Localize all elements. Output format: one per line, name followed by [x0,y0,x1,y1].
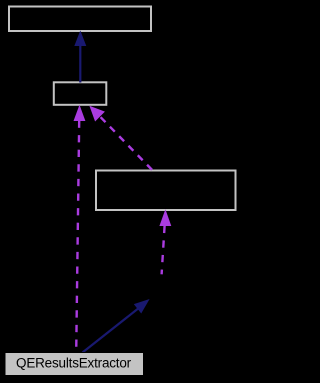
usage arrow bottom-box to small-box (dashed darkorchid, vertical) [74,105,86,353]
node box top (empty, grey border) [9,7,151,32]
inheritance arrow bottom-box up-right (solid midnightblue, diagonal) [83,299,150,353]
node box right-wide (empty, grey border) [96,171,236,211]
usage arrow stub below wide-box (dashed darkorchid, vertical) [159,209,171,274]
node box QEResultsExtractor (grey fill, black border) [5,353,144,376]
inheritance arrow small-box to top-box (solid midnightblue, up) [74,31,86,83]
usage arrow wide-box to small-box (dashed darkorchid, diagonal) [89,106,152,170]
svg-text:QEResultsExtractor: QEResultsExtractor [16,356,132,371]
node box middle-small (empty, grey border) [54,82,107,105]
